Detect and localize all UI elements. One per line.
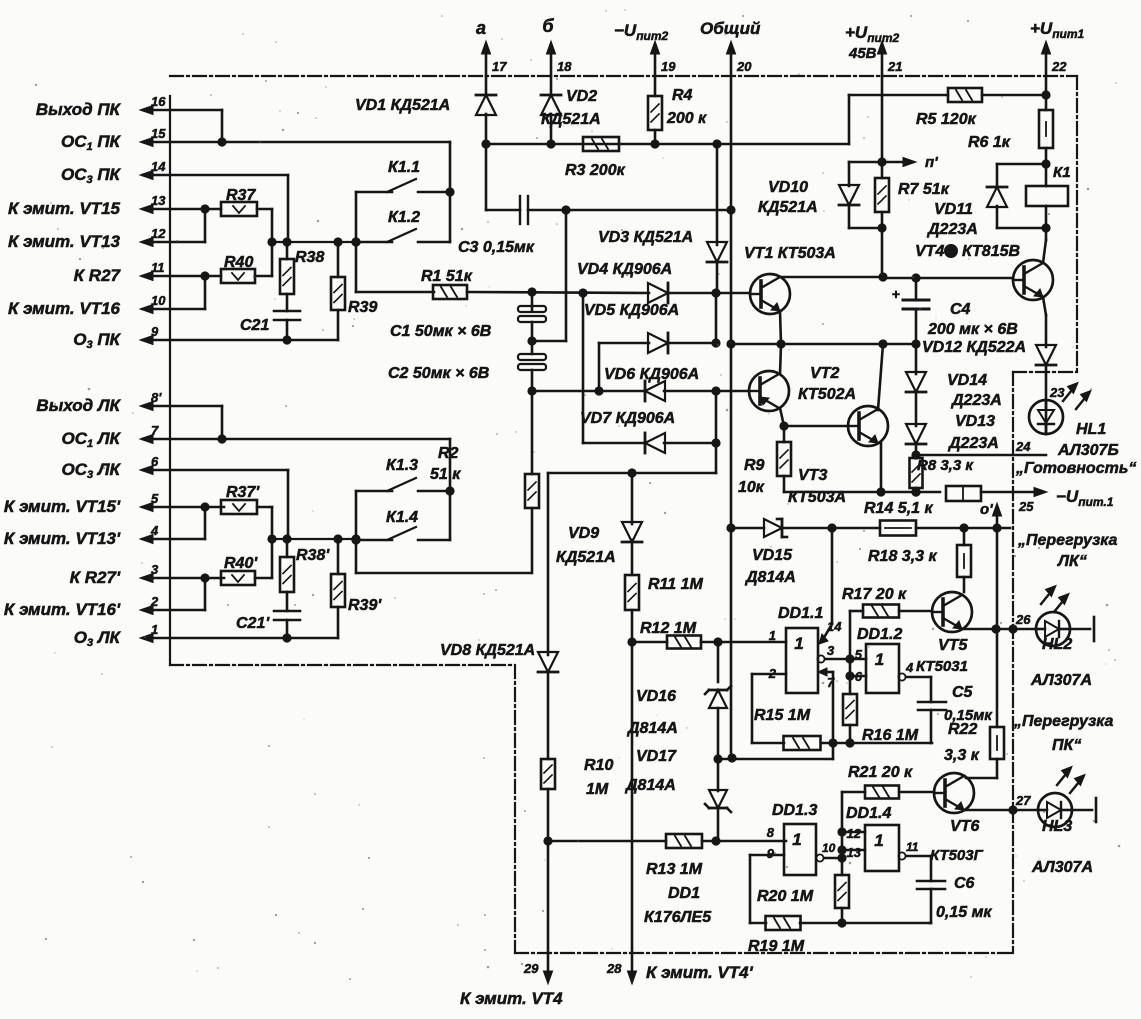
resistor R6	[1039, 110, 1053, 148]
svg-text:К эмит. VT16': К эмит. VT16'	[4, 600, 121, 619]
DD1.4 output pin 11	[898, 852, 905, 859]
svg-text:КД521А: КД521А	[758, 199, 818, 216]
svg-text:15: 15	[151, 126, 166, 141]
contact K1.3	[356, 490, 392, 493]
resistor R18	[963, 528, 966, 545]
svg-text:R9: R9	[744, 457, 765, 474]
svg-text:о': о'	[980, 501, 993, 518]
resistor R19	[750, 922, 766, 925]
diode VD10	[849, 161, 882, 164]
resistor R21	[865, 786, 899, 799]
wire K1 contacts left vertical to R1	[355, 192, 358, 292]
DD1.3 pin9 loop	[750, 854, 784, 857]
wire VT3 emitter down	[880, 442, 883, 492]
terminal 17 arrow	[485, 48, 488, 76]
wire VD5 left down to VD6 row	[598, 343, 601, 391]
svg-text:DD1: DD1	[668, 885, 700, 902]
svg-text:13: 13	[847, 845, 862, 860]
svg-text:VT6: VT6	[950, 818, 979, 835]
wire VT1 emitter to rail	[780, 311, 781, 344]
wire VT2 emitter to VT3 base	[780, 408, 784, 426]
svg-text:R15 1М: R15 1М	[754, 707, 811, 724]
resistor R40'	[221, 571, 255, 585]
svg-text:К R27': К R27'	[70, 568, 121, 587]
logic gate DD1.2	[866, 644, 899, 693]
svg-text:К1.3: К1.3	[386, 457, 418, 474]
svg-text:10: 10	[151, 293, 166, 308]
svg-text:К176ЛЕ5: К176ЛЕ5	[644, 909, 712, 926]
svg-text:К эмит. VT4: К эмит. VT4	[460, 989, 563, 1008]
resistor R5	[948, 88, 982, 102]
diode VD7	[583, 442, 646, 445]
svg-text:12: 12	[151, 226, 166, 241]
terminal 22 arrow	[1045, 48, 1048, 76]
svg-text:8': 8'	[151, 390, 162, 405]
resistor R38'	[286, 539, 289, 557]
wire VT2 collector up	[780, 344, 781, 374]
svg-text:К эмит. VT15': К эмит. VT15'	[4, 497, 121, 516]
transistor VT2 (pnp)	[749, 371, 789, 411]
diode VD15 (zener)	[731, 527, 764, 530]
svg-text:R37': R37'	[226, 484, 260, 501]
svg-text:4: 4	[905, 660, 914, 675]
pin 9 wire / label 9	[143, 339, 338, 342]
DD1.1 pin 14 power arrow	[831, 528, 834, 624]
svg-text:14: 14	[827, 619, 842, 634]
transistor VT1	[750, 274, 790, 314]
svg-text:R5 120к: R5 120к	[916, 111, 977, 128]
resistor R22	[990, 727, 1004, 759]
svg-text:DD1.3: DD1.3	[772, 802, 817, 819]
svg-text:23: 23	[1049, 385, 1065, 400]
svg-text:С6: С6	[954, 875, 975, 892]
DD1.1 output pin 3	[817, 655, 824, 662]
wire C1-C2 mid to C3 node	[532, 340, 566, 343]
svg-text:R1 51к: R1 51к	[421, 268, 473, 285]
diode VD14	[915, 344, 918, 374]
svg-text:VD4 КД906А: VD4 КД906А	[577, 261, 672, 278]
svg-text:HL2: HL2	[1042, 636, 1072, 653]
svg-text:К эмит. VT16: К эмит. VT16	[8, 299, 121, 318]
node pins 4-5 tie	[204, 507, 207, 539]
svg-text:27: 27	[1015, 793, 1031, 808]
svg-text:R3 200к: R3 200к	[565, 162, 626, 179]
contact K1.1	[356, 191, 392, 194]
svg-text:16: 16	[151, 94, 166, 109]
resistor R37	[221, 202, 257, 216]
svg-text:200 мк × 6В: 200 мк × 6В	[927, 321, 1018, 338]
svg-text:7: 7	[827, 675, 835, 690]
svg-text:18: 18	[557, 59, 572, 74]
svg-text:12: 12	[847, 826, 862, 841]
wire x632 to pin28	[631, 642, 634, 953]
LED HL1	[1045, 400, 1048, 434]
svg-text:VD10: VD10	[768, 179, 808, 196]
wire to R5	[848, 95, 851, 144]
resistor R17	[850, 610, 863, 613]
resistor R1	[433, 285, 467, 299]
svg-text:R18 3,3 к: R18 3,3 к	[868, 548, 937, 565]
wire VT4 emitter down	[1043, 297, 1046, 315]
resistor R2	[531, 391, 534, 474]
svg-text:КД521А: КД521А	[556, 549, 616, 566]
wire R5 to +Upit1 line	[982, 94, 1046, 97]
svg-text:+: +	[892, 286, 900, 302]
resistor R39	[337, 242, 340, 277]
svg-text:ПК“: ПК“	[1052, 737, 1081, 754]
svg-text:11: 11	[151, 260, 165, 275]
logic gate DD1.3	[784, 824, 816, 875]
pin 16 wire / label Выход ПК	[143, 109, 222, 112]
svg-text:9: 9	[767, 846, 775, 861]
resistor R3	[583, 137, 619, 151]
svg-text:„Перегрузка: „Перегрузка	[1013, 713, 1114, 730]
svg-text:VD2: VD2	[566, 88, 597, 105]
diode VD9	[631, 473, 634, 524]
svg-text:КТ815В: КТ815В	[962, 243, 1020, 260]
unit boundary dash-dot frame	[170, 75, 1077, 77]
resistor R38	[286, 242, 289, 259]
resistor R13	[548, 840, 666, 843]
svg-text:VD5 КД906А: VD5 КД906А	[584, 302, 679, 319]
wire VT4 base row	[883, 277, 1013, 280]
resistor R4	[654, 76, 657, 96]
svg-text:R40: R40	[224, 254, 253, 271]
svg-text:+Uпит1: +Uпит1	[1030, 19, 1085, 41]
transistor VT6	[934, 773, 974, 813]
svg-text:С21: С21	[240, 317, 269, 334]
pin 29	[547, 953, 550, 978]
wire HL1 row y455	[916, 454, 1046, 457]
pin 8' wire / label	[143, 405, 222, 408]
svg-text:VD16: VD16	[636, 688, 676, 705]
svg-text:VD13: VD13	[955, 413, 995, 430]
wire pin6 down to R38' bus	[287, 470, 290, 539]
svg-text:VT1 КТ503А: VT1 КТ503А	[744, 245, 836, 262]
svg-text:ОС3 ЛК: ОС3 ЛК	[62, 460, 122, 481]
svg-text:10к: 10к	[738, 479, 765, 496]
wire R3 row	[486, 143, 849, 146]
svg-text:DD1.1: DD1.1	[778, 605, 823, 622]
resistor R7	[875, 178, 889, 212]
svg-text:Д223А: Д223А	[950, 392, 1002, 409]
svg-text:О3 ЛК: О3 ЛК	[74, 628, 122, 649]
logic gate DD1.4	[865, 825, 899, 871]
bus wire R38' top	[272, 538, 356, 540]
pin 10 wire / label К эмит. VT16	[143, 308, 205, 311]
svg-text:11: 11	[906, 840, 919, 854]
svg-text:КТ5031: КТ5031	[916, 658, 968, 675]
svg-text:Д223А: Д223А	[947, 435, 999, 452]
svg-text:ЛК“: ЛК“	[1057, 553, 1087, 570]
LED HL3	[1038, 793, 1072, 827]
svg-text:1: 1	[794, 634, 803, 653]
diode VD16 (zener)	[717, 642, 720, 682]
svg-text:HL1: HL1	[1076, 421, 1106, 438]
pin 13 wire / label К эмит. VT15	[143, 208, 221, 211]
wire ground rail y759	[718, 758, 833, 761]
node pins 10-11 tie	[204, 276, 207, 309]
svg-text:„Перегрузка: „Перегрузка	[1017, 532, 1118, 549]
diode VD17 (zener)	[717, 759, 720, 791]
svg-text:R8 3,3 к: R8 3,3 к	[917, 457, 974, 474]
svg-text:25: 25	[1018, 499, 1034, 514]
svg-text:VT4: VT4	[915, 243, 944, 260]
svg-text:АЛ307А: АЛ307А	[1030, 672, 1092, 689]
wire VT4 collector	[1043, 240, 1046, 263]
wire R22 to VT6 collector	[996, 759, 999, 778]
wire K1.3/4 right vertical	[449, 439, 452, 540]
wire VT3 collector up	[878, 344, 883, 410]
svg-text:VD1 КД521А: VD1 КД521А	[355, 97, 450, 114]
svg-text:VD8 КД521А: VD8 КД521А	[440, 642, 535, 659]
wire R1 to VT1 base	[467, 292, 649, 293]
svg-text:1М: 1М	[586, 781, 609, 798]
DD1.3 output pin 10	[816, 854, 823, 861]
wire R17 left down to gate nodes	[849, 611, 852, 676]
svg-text:VD9: VD9	[568, 525, 599, 542]
svg-text:−Uпит.1: −Uпит.1	[1056, 487, 1114, 509]
DD1.2 output pin 4	[898, 673, 905, 680]
svg-text:20: 20	[736, 59, 752, 74]
svg-text:VD17: VD17	[636, 748, 677, 765]
svg-text:R12 1М: R12 1М	[640, 620, 697, 637]
svg-text:VT5: VT5	[938, 637, 968, 654]
svg-text:б: б	[542, 16, 554, 36]
svg-text:7: 7	[151, 423, 159, 438]
svg-text:О3 ПК: О3 ПК	[73, 330, 121, 351]
svg-text:R20 1М: R20 1М	[757, 888, 814, 905]
terminal 19 arrow	[654, 48, 657, 76]
wire K1 contacts right vertical	[449, 142, 452, 242]
wire x548 to pin29	[547, 841, 550, 953]
svg-text:10: 10	[822, 841, 836, 855]
svg-text:22: 22	[1051, 59, 1067, 74]
resistor R8	[910, 458, 923, 488]
svg-text:R13 1М: R13 1М	[646, 861, 703, 878]
contact K1.2	[356, 241, 392, 244]
wire x548 from y473 down	[547, 473, 550, 655]
svg-text:HL3: HL3	[1042, 818, 1072, 835]
svg-text:21: 21	[887, 59, 902, 74]
svg-text:VD11: VD11	[934, 201, 973, 218]
wire VT1 collector row	[780, 276, 883, 279]
capacitor C3	[486, 209, 520, 212]
wire pin8' to pin7 junction	[221, 406, 224, 439]
diode VD3	[716, 144, 719, 245]
svg-text:R40': R40'	[224, 555, 258, 572]
diode VD4	[648, 283, 668, 303]
wire VT5 emitter to HL2 row	[962, 628, 996, 631]
svg-text:С3 0,15мк: С3 0,15мк	[458, 239, 535, 256]
LED HL2	[996, 628, 1036, 631]
pin 15 wire / label 15	[143, 141, 450, 144]
svg-text:1: 1	[792, 830, 801, 849]
svg-text:3: 3	[827, 643, 835, 658]
node pins 2-3 tie	[204, 578, 207, 610]
svg-text:4: 4	[150, 523, 159, 538]
svg-text:R11 1М: R11 1М	[648, 576, 704, 593]
resistor R9	[783, 426, 786, 442]
svg-text:С2 50мк × 6В: С2 50мк × 6В	[388, 365, 489, 382]
svg-text:а: а	[476, 18, 486, 38]
pin 28	[631, 953, 634, 978]
svg-text:К1.2: К1.2	[388, 209, 420, 226]
svg-text:VD7 КД906А: VD7 КД906А	[580, 410, 675, 427]
svg-text:R19 1М: R19 1М	[748, 938, 805, 955]
svg-text:R38': R38'	[296, 547, 330, 564]
svg-text:К эмит. VT4': К эмит. VT4'	[646, 963, 754, 982]
svg-text:R2: R2	[438, 445, 459, 462]
transistor VT4	[1013, 260, 1053, 300]
svg-text:КТ502А: КТ502А	[798, 386, 856, 403]
wire Obshchiy vertical (pin 20)	[730, 76, 733, 758]
svg-text:1: 1	[874, 831, 883, 850]
svg-text:R6 1к: R6 1к	[968, 134, 1011, 151]
svg-text:VD15: VD15	[752, 547, 793, 564]
resistor R15	[784, 736, 821, 750]
svg-text:R16 1М: R16 1М	[862, 727, 919, 744]
wire o' vertical / R22 feed	[996, 528, 999, 629]
svg-text:+Uпит2: +Uпит2	[845, 23, 900, 45]
wire pin22 down	[1045, 76, 1048, 110]
pin 1 wire / label	[143, 637, 338, 640]
svg-text:АЛ307Б: АЛ307Б	[1057, 442, 1119, 459]
transistor VT5	[932, 592, 972, 632]
svg-text:VD3 КД521А: VD3 КД521А	[598, 229, 693, 246]
svg-text:R4: R4	[672, 87, 693, 104]
wire R37' right to bus	[257, 506, 272, 509]
wire y473 row	[548, 472, 716, 475]
resistor R39'	[337, 539, 340, 574]
svg-text:R39': R39'	[348, 597, 382, 614]
svg-text:200 к: 200 к	[666, 110, 707, 127]
capacitor C4 (electrolytic)	[915, 278, 918, 300]
DD1.1 pin2 wire / R15 loop	[752, 673, 786, 676]
svg-text:К R27: К R27	[74, 266, 122, 285]
capacitor C21	[286, 294, 289, 311]
capacitor C1 (electrolytic)	[531, 292, 534, 310]
svg-text:VT3: VT3	[798, 467, 827, 484]
svg-text:1: 1	[875, 650, 884, 669]
svg-text:Общий: Общий	[700, 19, 761, 38]
svg-text:R39: R39	[348, 299, 377, 316]
node pins 12-13 tie	[204, 209, 207, 242]
svg-text:9: 9	[151, 324, 159, 339]
svg-text:29: 29	[523, 961, 539, 976]
capacitor C21'	[286, 592, 289, 611]
logic gate DD1.1	[786, 628, 818, 693]
svg-text:R14 5,1 к: R14 5,1 к	[864, 500, 933, 517]
DD1.1 pin 7 arrow	[818, 668, 827, 676]
svg-text:Д814А: Д814А	[744, 569, 796, 586]
wire pin16 to pin15 junction	[221, 110, 224, 142]
resistor R14	[880, 521, 916, 536]
svg-text:VT2: VT2	[810, 365, 839, 382]
resistor R16	[849, 676, 852, 694]
diode VD12	[1036, 345, 1056, 365]
svg-text:DD1.4: DD1.4	[846, 805, 891, 822]
diode VD5	[599, 342, 649, 345]
terminal 20 arrow	[730, 48, 733, 76]
svg-text:R10: R10	[584, 757, 613, 774]
resistor R10	[541, 759, 555, 789]
relay coil K1	[1026, 186, 1068, 206]
pin 6 wire / label	[143, 469, 288, 472]
svg-text:ОС1 ПК: ОС1 ПК	[61, 132, 122, 153]
resistor R37'	[221, 500, 257, 514]
svg-text:17: 17	[492, 59, 507, 74]
svg-text:0,15 мк: 0,15 мк	[936, 904, 992, 921]
capacitor C2 (electrolytic)	[518, 354, 546, 360]
wire R40 right	[255, 275, 272, 278]
wire pin21 down to R7	[881, 76, 884, 178]
diode VD11	[997, 163, 1046, 166]
fuse-like element on -Upit1 row	[946, 486, 981, 501]
node o' arrow	[996, 509, 999, 527]
svg-text:Выход ЛК: Выход ЛК	[36, 396, 121, 415]
svg-text:К эмит. VT13': К эмит. VT13'	[4, 529, 121, 548]
diode VD8	[538, 652, 558, 672]
svg-text:п': п'	[925, 154, 938, 171]
svg-text:С5: С5	[952, 684, 974, 701]
svg-text:ОС3 ПК: ОС3 ПК	[61, 165, 122, 186]
svg-text:1: 1	[151, 622, 158, 637]
svg-text:24: 24	[1015, 439, 1031, 454]
svg-text:VD12 КД522А: VD12 КД522А	[922, 339, 1026, 356]
wire K1.3/4 left vertical to R2 return	[355, 491, 358, 573]
svg-text:51 к: 51 к	[430, 466, 461, 483]
resistor R12	[667, 636, 701, 649]
wire common rail y344	[731, 343, 916, 346]
wire R40' right	[255, 577, 272, 580]
pin 4 wire / label	[143, 538, 205, 541]
svg-text:Выход ПК: Выход ПК	[36, 100, 122, 119]
svg-text:КТ503Г: КТ503Г	[930, 847, 984, 864]
left connector edge line	[169, 96, 171, 665]
svg-text:С1 50мк × 6В: С1 50мк × 6В	[390, 323, 491, 340]
svg-text:К1.1: К1.1	[388, 159, 420, 176]
svg-text:14: 14	[151, 159, 166, 174]
svg-text:R37: R37	[226, 187, 256, 204]
svg-text:R7 51к: R7 51к	[898, 181, 950, 198]
pin 14 wire / label 14	[143, 174, 288, 177]
svg-text:К эмит. VT15: К эмит. VT15	[8, 199, 121, 218]
wire -Upit1 row y492	[784, 491, 940, 494]
capacitor C6	[930, 856, 933, 881]
svg-text:13: 13	[151, 193, 166, 208]
svg-text:8: 8	[767, 825, 775, 840]
svg-text:К1: К1	[1053, 164, 1071, 181]
svg-text:VD6 КД906А: VD6 КД906А	[604, 366, 699, 383]
resistor R20	[841, 858, 844, 875]
wire a-terminal down / corner to C3	[485, 144, 488, 210]
wire R37 right to bus	[257, 208, 272, 211]
svg-text:3: 3	[151, 562, 159, 577]
svg-text:К1.4: К1.4	[386, 509, 418, 526]
diode VD13	[906, 424, 926, 444]
svg-text:6: 6	[151, 454, 159, 469]
wire VD7 left up to R1 row	[582, 293, 585, 443]
bus wire R38 top	[272, 241, 356, 243]
wire pin14 down to R38 bus	[287, 175, 290, 242]
svg-text:С4: С4	[950, 301, 971, 318]
pin 11 wire / label К R27	[143, 275, 221, 278]
diode VD1	[485, 76, 488, 96]
svg-text:Д223А: Д223А	[926, 221, 978, 238]
transistor VT3	[848, 406, 888, 446]
svg-text:С21': С21'	[236, 615, 270, 632]
